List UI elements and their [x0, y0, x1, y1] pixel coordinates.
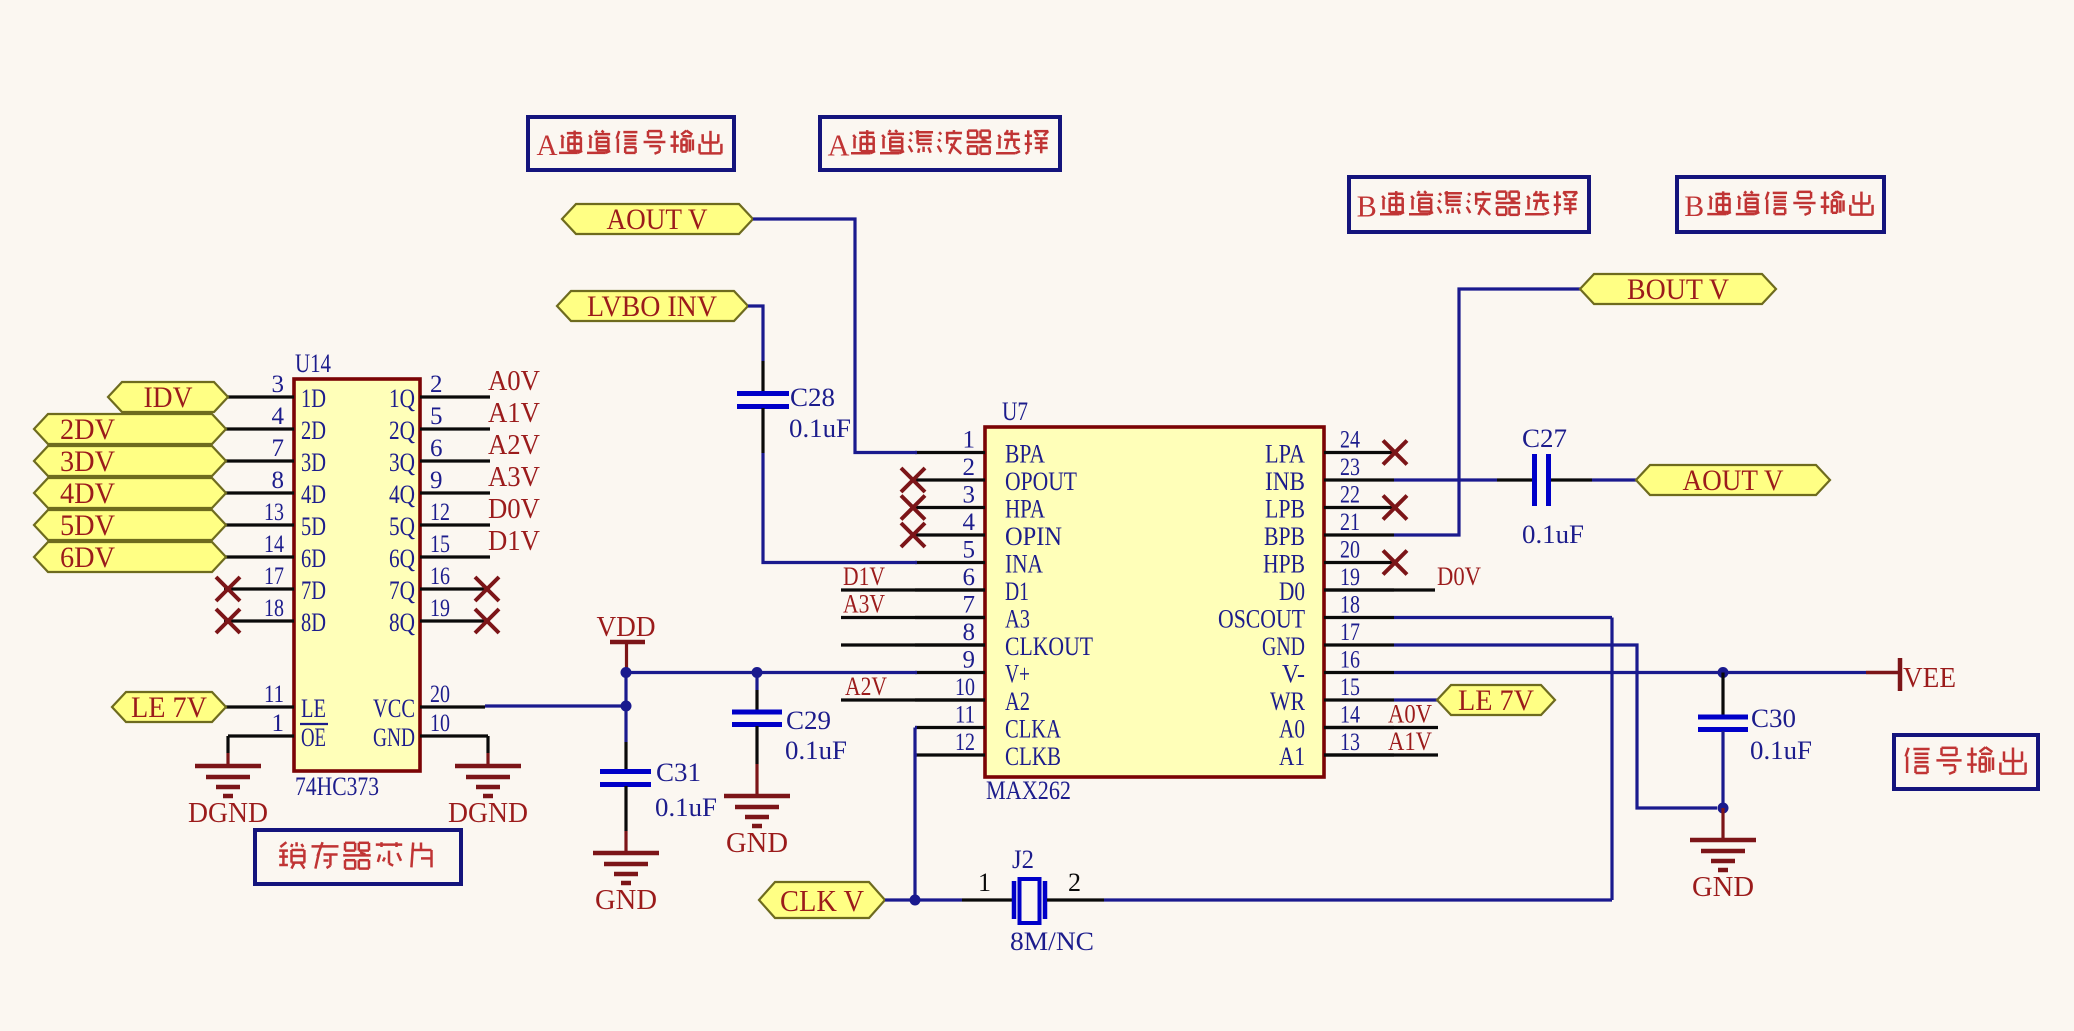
capacitor C30 0.1uF — [1698, 704, 1812, 765]
net label A1V at U14 2Q — [488, 398, 540, 429]
svg-text:A0V: A0V — [488, 366, 540, 397]
svg-text:0.1uF: 0.1uF — [785, 736, 847, 765]
U7 pin 11 (CLKA) stub — [915, 702, 985, 729]
U14 pin 4 (2D) stub — [224, 403, 294, 430]
svg-text:15: 15 — [1340, 674, 1360, 701]
U14 pin 19 (8Q) stub — [420, 595, 499, 633]
U7 pin 21 (BPB) stub — [1324, 509, 1394, 536]
U14 pin 13 (5D) stub — [224, 499, 294, 526]
junction V- at C30 top — [1718, 667, 1729, 678]
net flag BOUT V — [1580, 273, 1776, 306]
U7 pin 13 (A1) stub — [1324, 729, 1394, 756]
svg-text:10: 10 — [430, 710, 450, 737]
svg-text:J2: J2 — [1012, 845, 1034, 874]
U14 pin 18 (8D) stub — [216, 595, 294, 633]
svg-text:LE: LE — [301, 694, 326, 723]
svg-text:4DV: 4DV — [60, 477, 115, 510]
net flag 4DV — [34, 477, 226, 510]
svg-text:A2V: A2V — [845, 672, 887, 701]
ground GND at C31 — [593, 853, 659, 916]
svg-text:LPB: LPB — [1265, 495, 1305, 524]
capacitor C28 0.1uF — [737, 383, 851, 443]
wire U7 pin 18 OSCOUT to vertical — [1394, 616, 1612, 619]
U14 pin 10 (GND) stub and wire to ground — [420, 710, 488, 767]
U7 pin 8 (CLKOUT) stub — [915, 619, 985, 646]
net flag 5DV — [34, 509, 226, 542]
svg-text:10: 10 — [955, 674, 975, 701]
svg-text:INB: INB — [1265, 467, 1305, 496]
U7 pin 2 (OPOUT) stub — [901, 454, 985, 492]
U7 pin 5 (INA) stub — [915, 537, 985, 564]
svg-text:LPA: LPA — [1265, 440, 1305, 469]
svg-text:HPA: HPA — [1005, 495, 1045, 524]
wire D1V net to U7 pin 6 — [841, 588, 985, 591]
svg-text:4D: 4D — [301, 480, 326, 509]
svg-text:22: 22 — [1340, 482, 1360, 509]
svg-text:LE 7V: LE 7V — [131, 691, 207, 724]
svg-text:6: 6 — [963, 564, 976, 591]
svg-text:LVBO INV: LVBO INV — [587, 290, 717, 323]
wire VDD to C31 — [624, 706, 627, 769]
net label A2V at U14 3Q — [488, 430, 540, 461]
junction VDD at VCC branch — [621, 701, 632, 712]
U14 pin 8 (4D) stub — [224, 467, 294, 494]
svg-text:6: 6 — [430, 435, 443, 462]
wire U7 pin 15 WR to LE 7V flag — [1394, 698, 1437, 701]
svg-text:7D: 7D — [301, 576, 326, 605]
svg-text:VDD: VDD — [597, 612, 656, 643]
capacitor C29 0.1uF — [732, 706, 847, 765]
net flag LE 7V (left) — [112, 691, 226, 724]
U7 pin 16 (V-) stub — [1324, 647, 1394, 674]
ground GND at C30 — [1690, 840, 1756, 903]
ground DGND at U14 OE — [188, 766, 268, 829]
wire A2V net to U7 pin 10 — [841, 698, 985, 701]
svg-text:GND: GND — [373, 723, 415, 752]
U14 pin 3 (1D) stub — [224, 371, 294, 398]
wire VDD rail to C29 — [755, 673, 758, 711]
U14 pin 14 (6D) stub — [224, 531, 294, 558]
svg-text:8: 8 — [272, 467, 285, 494]
U7 pin 1 (BPA) stub — [915, 427, 985, 454]
svg-text:21: 21 — [1340, 509, 1360, 536]
wire U7 pin 17 GND to C30 bottom — [1394, 645, 1717, 808]
svg-text:A: A — [537, 130, 558, 162]
U7 pin 6 (D1) stub — [915, 564, 985, 591]
svg-text:2: 2 — [963, 454, 976, 481]
svg-text:17: 17 — [264, 563, 284, 590]
power symbol VEE — [1866, 658, 1956, 694]
svg-text:8Q: 8Q — [389, 608, 415, 637]
svg-text:3DV: 3DV — [60, 445, 115, 478]
svg-text:0.1uF: 0.1uF — [789, 414, 851, 443]
svg-text:5DV: 5DV — [60, 509, 115, 542]
svg-text:1: 1 — [978, 868, 991, 897]
svg-text:1D: 1D — [301, 384, 326, 413]
svg-text:18: 18 — [264, 595, 284, 622]
svg-text:A1: A1 — [1279, 742, 1305, 771]
svg-text:V-: V- — [1282, 660, 1305, 689]
wire J2 to OSCOUT net — [1104, 898, 1612, 901]
wire LVBO INV down to C28 — [748, 306, 763, 392]
svg-text:18: 18 — [1340, 592, 1360, 619]
svg-text:6Q: 6Q — [389, 544, 415, 573]
wire VDD to U14 VCC — [485, 673, 626, 707]
svg-text:A1V: A1V — [488, 398, 540, 429]
svg-text:8: 8 — [963, 619, 976, 646]
U7 pin 20 (HPB) stub — [1324, 537, 1407, 575]
wire A1V net at U7 pin 13 — [1324, 753, 1438, 756]
wire C30 to ground junction — [1721, 731, 1724, 808]
IC U7 MAX262 body — [985, 397, 1324, 805]
svg-text:C31: C31 — [656, 758, 701, 787]
net flag IDV — [108, 381, 228, 414]
svg-text:24: 24 — [1340, 427, 1360, 454]
junction CLK node — [910, 895, 921, 906]
svg-text:14: 14 — [1340, 702, 1360, 729]
svg-text:4Q: 4Q — [389, 480, 415, 509]
svg-text:12: 12 — [955, 729, 975, 756]
wire C27 to AOUT V flag — [1551, 478, 1636, 481]
svg-text:3: 3 — [272, 371, 285, 398]
svg-text:5: 5 — [963, 537, 976, 564]
svg-text:DGND: DGND — [448, 798, 528, 829]
wire A0V net at U7 pin 14 — [1324, 726, 1438, 729]
net label D1V — [843, 562, 885, 591]
svg-text:DGND: DGND — [188, 798, 268, 829]
svg-text:8M/NC: 8M/NC — [1010, 927, 1094, 956]
svg-text:BOUT V: BOUT V — [1627, 273, 1729, 306]
svg-text:23: 23 — [1340, 454, 1360, 481]
svg-text:CLKB: CLKB — [1005, 742, 1061, 771]
svg-text:1: 1 — [272, 710, 285, 737]
svg-text:D0V: D0V — [488, 494, 540, 525]
net label A0V at U14 1Q — [488, 366, 540, 397]
capacitor C31 0.1uF — [600, 758, 717, 822]
svg-text:1Q: 1Q — [389, 384, 415, 413]
net flag LE 7V (right) — [1437, 684, 1555, 717]
annotation box: signal output — [1894, 735, 2038, 789]
svg-text:HPB: HPB — [1263, 550, 1305, 579]
crystal J2 8M/NC — [962, 845, 1104, 956]
svg-text:8D: 8D — [301, 608, 326, 637]
svg-text:6DV: 6DV — [60, 541, 115, 574]
U7 pin 23 (INB) stub — [1324, 454, 1394, 481]
svg-text:19: 19 — [430, 595, 450, 622]
wire C31 to ground — [624, 786, 627, 854]
U14 pin 1 (OE) stub and wire to ground — [228, 710, 294, 767]
U14 pin 5 (2Q) stub — [420, 403, 490, 430]
svg-text:5Q: 5Q — [389, 512, 415, 541]
U7 pin 14 (A0) stub — [1324, 702, 1394, 729]
svg-text:D1V: D1V — [843, 562, 885, 591]
wire OSCOUT vertical — [1610, 618, 1613, 901]
wire AOUT V to U7 pin 1 — [753, 219, 917, 453]
wire C29 to ground — [755, 726, 758, 797]
svg-text:C30: C30 — [1751, 704, 1796, 733]
svg-text:OPOUT: OPOUT — [1005, 467, 1077, 496]
U14 pin 20 (VCC) stub — [420, 681, 485, 708]
capacitor C27 0.1uF — [1522, 424, 1584, 549]
svg-text:B: B — [1357, 189, 1377, 223]
U14 pin 17 (7D) stub — [216, 563, 294, 601]
svg-text:VEE: VEE — [1903, 663, 1956, 694]
net label A1V (U7) — [1388, 727, 1432, 756]
svg-text:GND: GND — [1262, 632, 1305, 661]
svg-text:A3V: A3V — [843, 590, 885, 619]
svg-text:4: 4 — [963, 509, 976, 536]
wire C28 to U7 pin 5 INA — [763, 408, 917, 563]
wire V- rail to C30 — [1721, 673, 1724, 716]
net label A2V — [845, 672, 887, 701]
annotation box: A channel filter select — [820, 117, 1060, 170]
power symbol VDD — [597, 612, 656, 672]
net label A3V at U14 4Q — [488, 462, 540, 493]
annotation box: A channel signal output — [528, 117, 734, 170]
svg-text:2Q: 2Q — [389, 416, 415, 445]
ground GND at C29 — [724, 796, 790, 859]
svg-text:LE 7V: LE 7V — [1458, 684, 1534, 717]
wire to U7 pin 8 CLKOUT — [841, 643, 985, 646]
svg-text:C27: C27 — [1522, 424, 1567, 453]
junction VDD rail at C31 — [621, 667, 632, 678]
svg-text:6D: 6D — [301, 544, 326, 573]
net flag AOUT V (right) — [1636, 464, 1830, 497]
annotation box: latch chip — [255, 830, 461, 884]
net label D1V at U14 6Q — [488, 526, 540, 557]
svg-text:5: 5 — [430, 403, 443, 430]
svg-text:A3: A3 — [1005, 605, 1030, 634]
svg-text:U7: U7 — [1002, 397, 1028, 426]
svg-text:B: B — [1684, 191, 1704, 223]
svg-text:AOUT V: AOUT V — [607, 203, 708, 236]
svg-text:3Q: 3Q — [389, 448, 415, 477]
svg-text:4: 4 — [272, 403, 285, 430]
svg-text:74HC373: 74HC373 — [295, 772, 379, 801]
U14 pin 15 (6Q) stub — [420, 531, 490, 558]
U7 pin 18 (OSCOUT) stub — [1324, 592, 1394, 619]
wire U7 pin 21 BPB to BOUT V — [1394, 289, 1580, 535]
svg-text:D0V: D0V — [1437, 562, 1481, 591]
U7 pin 7 (A3) stub — [915, 592, 985, 619]
svg-text:9: 9 — [963, 647, 976, 674]
svg-text:15: 15 — [430, 531, 450, 558]
svg-text:BPB: BPB — [1264, 522, 1305, 551]
svg-text:CLKA: CLKA — [1005, 715, 1061, 744]
net label D0V — [1437, 562, 1481, 591]
net flag LVBO INV — [557, 290, 748, 323]
U14 pin 16 (7Q) stub — [420, 563, 499, 601]
U14 pin 6 (3Q) stub — [420, 435, 490, 462]
U7 pin 22 (LPB) stub — [1324, 482, 1407, 520]
svg-text:14: 14 — [264, 531, 284, 558]
svg-text:GND: GND — [1692, 872, 1754, 903]
U7 pin 19 (D0) stub — [1324, 564, 1394, 591]
net flag 2DV — [34, 413, 226, 446]
net label D0V at U14 5Q — [488, 494, 540, 525]
svg-text:AOUT V: AOUT V — [1683, 464, 1784, 497]
U7 pin 4 (OPIN) stub — [901, 509, 985, 547]
svg-text:0.1uF: 0.1uF — [1522, 520, 1584, 549]
svg-text:0.1uF: 0.1uF — [1750, 736, 1812, 765]
U7 pin 17 (GND) stub — [1324, 619, 1394, 646]
svg-text:CLK V: CLK V — [780, 883, 865, 918]
svg-text:7Q: 7Q — [389, 576, 415, 605]
wire VDD rail to U7 pin 9 V+ — [626, 671, 917, 674]
wire CLK up to U7 CLKA/CLKB — [915, 728, 917, 901]
svg-text:20: 20 — [430, 681, 450, 708]
U14 pin 9 (4Q) stub — [420, 467, 490, 494]
ground DGND at U14 GND — [448, 766, 528, 829]
svg-text:D1V: D1V — [488, 526, 540, 557]
svg-text:VCC: VCC — [373, 694, 415, 723]
svg-text:16: 16 — [430, 563, 450, 590]
svg-text:13: 13 — [264, 499, 284, 526]
wire CLK V to junction and crystal — [885, 898, 962, 901]
svg-text:13: 13 — [1340, 729, 1360, 756]
svg-text:3: 3 — [963, 482, 976, 509]
net flag 6DV — [34, 541, 226, 574]
net label A0V (U7) — [1388, 700, 1432, 729]
svg-text:7: 7 — [963, 592, 976, 619]
svg-text:CLKOUT: CLKOUT — [1005, 632, 1093, 661]
U14 pin 11 (LE) stub — [226, 681, 294, 708]
svg-text:3D: 3D — [301, 448, 326, 477]
svg-text:OSCOUT: OSCOUT — [1218, 605, 1305, 634]
annotation box: B channel filter select — [1349, 177, 1589, 232]
svg-text:A: A — [828, 128, 850, 162]
svg-text:GND: GND — [595, 885, 657, 916]
svg-text:A3V: A3V — [488, 462, 540, 493]
net flag CLK V — [759, 882, 885, 918]
svg-text:WR: WR — [1270, 687, 1306, 716]
svg-text:U14: U14 — [295, 349, 331, 378]
U7 pin 24 (LPA) stub — [1324, 427, 1407, 465]
U14 pin 7 (3D) stub — [224, 435, 294, 462]
U7 pin 10 (A2) stub — [915, 674, 985, 701]
svg-text:A1V: A1V — [1388, 727, 1432, 756]
svg-text:C29: C29 — [786, 706, 831, 735]
wire A3V net to U7 pin 7 — [841, 616, 985, 619]
svg-text:2: 2 — [430, 371, 443, 398]
U14 pin 2 (1Q) stub — [420, 371, 490, 398]
net label A3V — [843, 590, 885, 619]
svg-text:MAX262: MAX262 — [986, 776, 1071, 805]
svg-text:OE: OE — [301, 723, 326, 752]
net flag 3DV — [34, 445, 226, 478]
wire C30 junction to ground — [1721, 808, 1724, 841]
U14 pin 12 (5Q) stub — [420, 499, 490, 526]
svg-text:1: 1 — [963, 427, 976, 454]
svg-text:A0V: A0V — [1388, 700, 1432, 729]
svg-text:IDV: IDV — [144, 381, 193, 414]
IC U14 74HC373 body — [294, 349, 420, 801]
junction VDD rail at C29 — [752, 667, 763, 678]
svg-text:19: 19 — [1340, 564, 1360, 591]
svg-text:2DV: 2DV — [60, 413, 115, 446]
svg-text:OPIN: OPIN — [1005, 522, 1062, 551]
svg-text:BPA: BPA — [1005, 440, 1045, 469]
svg-text:INA: INA — [1005, 550, 1043, 579]
svg-text:D1: D1 — [1005, 577, 1029, 606]
svg-text:2: 2 — [1068, 868, 1081, 897]
junction C30 bottom — [1718, 803, 1729, 814]
svg-text:D0: D0 — [1279, 577, 1305, 606]
net flag AOUT V (top) — [562, 203, 753, 236]
svg-text:A0: A0 — [1279, 715, 1305, 744]
svg-text:V+: V+ — [1005, 660, 1030, 689]
annotation box: B channel signal output — [1677, 177, 1884, 232]
svg-text:20: 20 — [1340, 537, 1360, 564]
svg-text:0.1uF: 0.1uF — [655, 793, 717, 822]
svg-text:11: 11 — [264, 681, 284, 708]
svg-text:7: 7 — [272, 435, 285, 462]
svg-text:12: 12 — [430, 499, 450, 526]
svg-text:C28: C28 — [790, 383, 835, 412]
U7 pin 9 (V+) stub — [915, 647, 985, 674]
svg-text:5D: 5D — [301, 512, 326, 541]
wire U7 pin 23 INB to C27 — [1394, 478, 1532, 481]
svg-text:2D: 2D — [301, 416, 326, 445]
wire U7 pin 16 V- to VEE — [1394, 671, 1866, 674]
svg-text:A2V: A2V — [488, 430, 540, 461]
U7 pin 3 (HPA) stub — [901, 482, 985, 520]
svg-text:9: 9 — [430, 467, 443, 494]
svg-text:GND: GND — [726, 828, 788, 859]
svg-text:17: 17 — [1340, 619, 1360, 646]
wire D0V net at U7 pin 19 — [1324, 588, 1435, 591]
svg-text:11: 11 — [955, 702, 975, 729]
U7 pin 12 (CLKB) stub — [915, 729, 985, 756]
svg-text:A2: A2 — [1005, 687, 1030, 716]
svg-text:16: 16 — [1340, 647, 1360, 674]
U7 pin 15 (WR) stub — [1324, 674, 1394, 701]
